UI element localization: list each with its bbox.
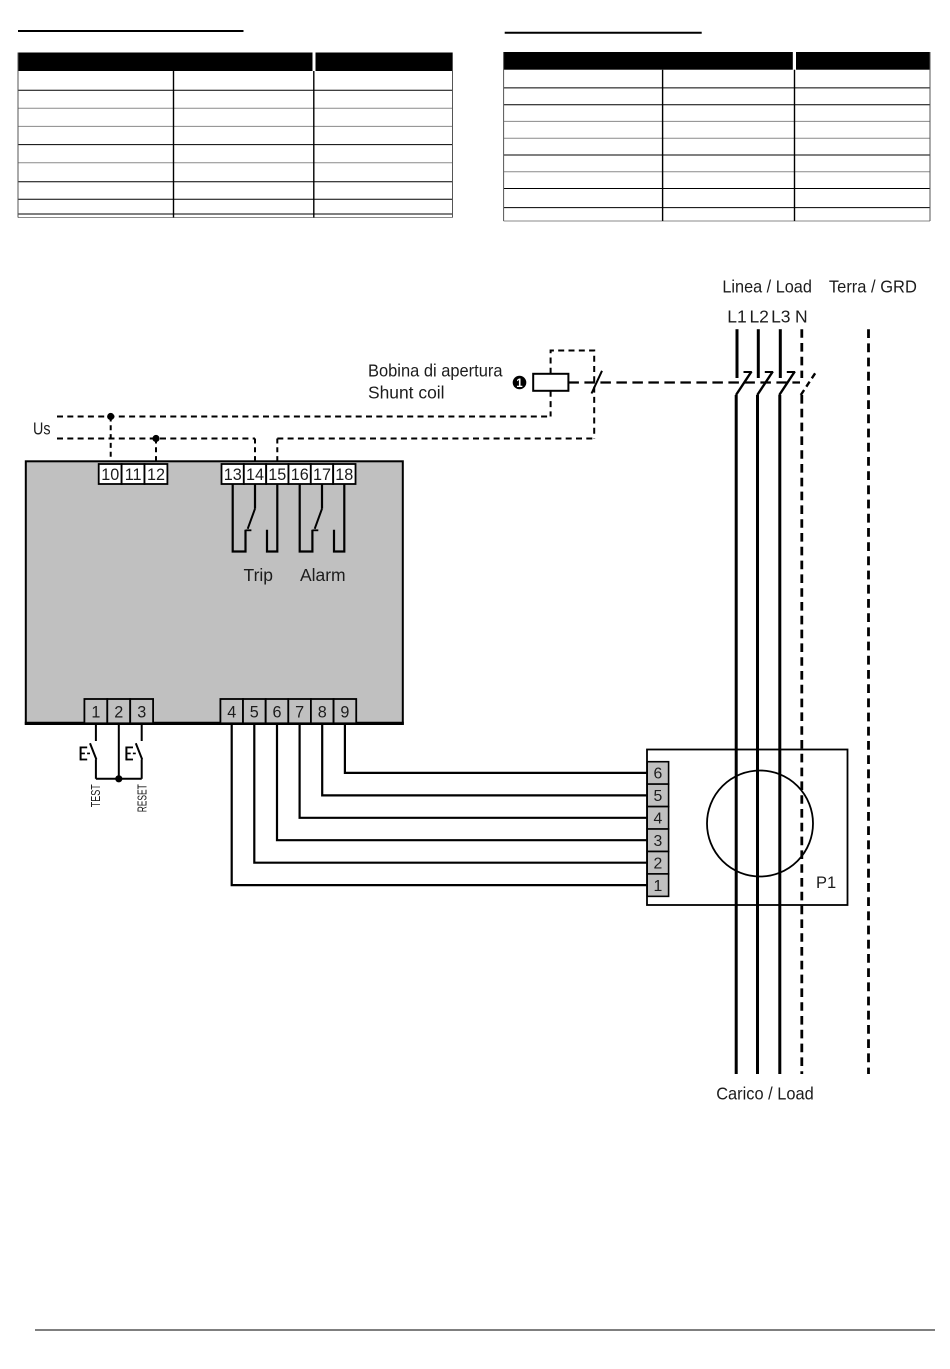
svg-text:L1: L1 — [727, 307, 746, 327]
wire Us bottom bus left segment (dashed) — [57, 438, 255, 440]
junction dot test/reset common — [115, 775, 122, 782]
svg-text:13: 13 — [224, 466, 242, 484]
breaker pole L3 tick — [787, 371, 795, 373]
trip contact: wire from pin 14 — [254, 484, 256, 509]
svg-text:10: 10 — [101, 466, 119, 484]
svg-text:Bobina di apertura: Bobina di apertura — [368, 361, 503, 381]
reset button lower wire — [141, 759, 143, 778]
svg-text:9: 9 — [340, 704, 349, 722]
trip contact seat tick — [246, 529, 252, 531]
current transformer toroid — [707, 771, 813, 877]
svg-text:16: 16 — [291, 466, 309, 484]
pin 13 — [222, 464, 244, 484]
note marker 1 (black circled 1) — [513, 376, 527, 390]
pin 10 — [99, 464, 122, 484]
CT terminal 1 — [647, 874, 668, 896]
svg-text:N: N — [795, 307, 808, 327]
trip contact blade — [248, 509, 255, 529]
svg-text:11: 11 — [125, 466, 142, 484]
svg-text:3: 3 — [654, 833, 663, 850]
pin 14 — [244, 464, 266, 484]
breaker pole L2 tick — [765, 371, 773, 373]
wire test/reset common — [96, 778, 142, 780]
pin 7 — [288, 699, 311, 723]
CT terminal 4 — [647, 807, 668, 829]
alarm contact: wire from pin 16 — [300, 484, 313, 552]
svg-text:Us: Us — [33, 419, 51, 439]
shunt coil SC1 — [533, 374, 568, 391]
wire coil top riser (dashed) — [551, 351, 595, 439]
pin 3 — [130, 699, 153, 723]
left table — [18, 53, 453, 218]
svg-text:2: 2 — [114, 704, 123, 722]
pin 2 — [107, 699, 130, 723]
mechanical linkage to breaker (dashed) — [568, 381, 800, 383]
breaker pole N blade (dashed) — [801, 372, 817, 396]
ground conductor Terra/GRD (dashed) — [867, 329, 870, 1074]
svg-text:15: 15 — [268, 466, 286, 484]
wire pin 4 to CT terminal 1 — [232, 725, 648, 885]
line N lower conductor (dashed) — [800, 395, 803, 1074]
wire from pin 2 — [118, 725, 120, 779]
svg-text:1: 1 — [516, 378, 523, 390]
wire Us bottom bus right segment (dashed) — [277, 438, 594, 440]
current transformer P1 body — [647, 750, 848, 906]
wire drop to pin 12 (dashed) — [155, 439, 157, 465]
pin 17 — [311, 464, 333, 484]
alarm contact: wire from pin 18 — [334, 484, 344, 552]
pin 12 — [145, 464, 168, 484]
svg-text:Alarm: Alarm — [300, 565, 346, 585]
wire pin 6 to CT terminal 3 — [277, 725, 647, 840]
wire Us top bus (dashed) — [57, 416, 551, 418]
pin 16 — [289, 464, 311, 484]
svg-text:12: 12 — [147, 466, 165, 484]
pin 5 — [243, 699, 266, 723]
svg-text:3: 3 — [137, 704, 146, 722]
svg-text:RESET: RESET — [135, 784, 149, 812]
pin 4 — [220, 699, 243, 723]
svg-text:Terra / GRD: Terra / GRD — [829, 276, 917, 296]
wire drop to pin 15 (dashed) — [276, 439, 278, 465]
reset button S2: upper wire from pin 3 — [141, 725, 143, 741]
svg-text:17: 17 — [313, 466, 331, 484]
trip contact: wire from pin 13 — [233, 484, 246, 552]
svg-text:5: 5 — [250, 704, 259, 722]
pin 6 — [266, 699, 289, 723]
svg-text:6: 6 — [654, 766, 663, 783]
test button actuator — [81, 747, 90, 761]
page footer rule — [35, 1329, 935, 1331]
line L1 lower conductor — [735, 395, 738, 1074]
reset button actuator — [126, 747, 135, 761]
svg-text:7: 7 — [295, 704, 304, 722]
line L2 lower conductor — [756, 395, 759, 1074]
svg-text:8: 8 — [318, 704, 327, 722]
right table title underline — [505, 32, 702, 34]
junction dot on Us bottom bus — [152, 435, 159, 442]
test button S1: upper wire from pin 1 — [95, 725, 97, 741]
test button lower wire — [95, 759, 97, 778]
breaker pole L2 upper — [757, 329, 760, 378]
pin 18 — [333, 464, 355, 484]
pin 8 — [311, 699, 334, 723]
svg-text:Linea / Load: Linea / Load — [722, 276, 812, 296]
CT terminal 2 — [647, 852, 668, 874]
alarm contact seat tick — [312, 529, 318, 531]
svg-text:TEST: TEST — [89, 784, 103, 807]
breaker pole L3 upper — [779, 329, 782, 378]
svg-text:5: 5 — [654, 788, 663, 805]
svg-text:Shunt coil: Shunt coil — [368, 383, 445, 403]
svg-text:18: 18 — [335, 466, 353, 484]
relay body bottom edge — [25, 722, 404, 725]
alarm contact blade — [315, 509, 322, 529]
wire pin 7 to CT terminal 4 — [300, 725, 648, 818]
svg-text:4: 4 — [227, 704, 236, 722]
relay unit body — [26, 461, 403, 724]
wire pin 8 to CT terminal 5 — [322, 725, 647, 796]
wire pin 9 to CT terminal 6 — [345, 725, 647, 773]
pin 15 — [266, 464, 288, 484]
svg-text:1: 1 — [654, 878, 663, 895]
svg-text:P1: P1 — [816, 874, 836, 892]
junction dot on Us top bus — [107, 413, 114, 420]
trip contact: wire from pin 15 — [267, 484, 277, 552]
reset button blade — [136, 743, 142, 759]
right table — [504, 52, 930, 221]
wire pin 5 to CT terminal 2 — [254, 725, 647, 863]
CT terminal 6 — [647, 762, 668, 784]
svg-text:14: 14 — [246, 466, 264, 484]
breaker pole L3 blade — [779, 372, 795, 396]
svg-text:Trip: Trip — [244, 565, 274, 585]
svg-text:L2: L2 — [749, 307, 768, 327]
wire coil bottom to Us top bus (dashed) — [550, 391, 552, 417]
svg-text:Carico / Load: Carico / Load — [716, 1084, 814, 1104]
linkage slash — [592, 371, 603, 394]
svg-text:4: 4 — [654, 811, 663, 828]
pin 9 — [334, 699, 357, 723]
label Bobina di apertura / Shunt coil — [368, 361, 503, 403]
pin 1 — [84, 699, 107, 723]
breaker pole L2 blade — [757, 372, 773, 396]
wire drop to pin 10 (dashed) — [110, 417, 112, 465]
svg-text:6: 6 — [272, 704, 281, 722]
left table title underline — [18, 30, 244, 32]
breaker pole N upper (dashed) — [800, 329, 803, 378]
breaker pole L1 tick — [744, 371, 752, 373]
breaker pole L1 blade — [736, 372, 752, 396]
svg-text:1: 1 — [91, 704, 100, 722]
test button blade — [90, 743, 96, 759]
svg-text:L3: L3 — [771, 307, 790, 327]
alarm contact: wire from pin 17 — [321, 484, 323, 509]
breaker pole L1 upper — [736, 329, 739, 378]
wire drop to pin 14 (dashed) — [254, 439, 256, 465]
pin 11 — [122, 464, 145, 484]
svg-text:2: 2 — [654, 856, 663, 873]
CT terminal 5 — [647, 784, 668, 806]
CT terminal 3 — [647, 829, 668, 851]
line L3 lower conductor — [778, 395, 781, 1074]
